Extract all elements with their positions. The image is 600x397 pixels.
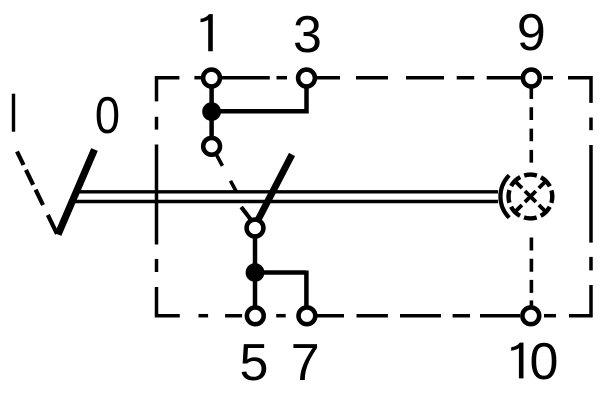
- border bottom short dash near left corner: [199, 314, 209, 318]
- border top dash T1-T3 a: [220, 76, 270, 80]
- lamp L1 dashed cross stroke b: [514, 180, 548, 214]
- border top dash T3-T9 a: [316, 76, 340, 80]
- wire: junction J2 to right: [255, 270, 306, 275]
- wire: terminal 1 down through junction to contact circle: [209, 85, 214, 139]
- dashed wire terminal 9 to lamp: [529, 107, 533, 162]
- terminal 3: [298, 70, 315, 87]
- border right short dash d: [589, 257, 593, 271]
- svg-text:0: 0: [530, 333, 559, 391]
- actuator bar upper line: [74, 190, 498, 193]
- dashed contact path from fixed contact to pivot: [216, 153, 237, 192]
- border bottom dash to T5: [225, 314, 242, 318]
- svg-text:5: 5: [239, 334, 268, 392]
- wire: terminal 3 stub down: [304, 85, 309, 114]
- moving contact lever: [258, 155, 292, 221]
- border bottom short dash T7-T10 d: [453, 314, 470, 318]
- border bottom dash T7-T10 c: [400, 314, 441, 318]
- border right long dash b: [589, 145, 593, 243]
- border bottom dash from T7 a: [317, 314, 344, 318]
- svg-text:3: 3: [293, 6, 322, 64]
- wire: terminal 9 stub down: [529, 86, 533, 99]
- actuator bar lower line: [70, 200, 498, 203]
- fixed contact circle below J1: [203, 138, 220, 155]
- terminal 9: [523, 70, 540, 87]
- border top dash to terminal 1: [194, 76, 202, 80]
- enclosure border: bottom-right corner: [569, 285, 591, 316]
- dashed contact path final segment at pivot: [241, 207, 251, 221]
- border bottom short dash T5-T7: [276, 314, 286, 318]
- label I (position I marker bar): [12, 94, 15, 132]
- label 10 digit 1: [511, 343, 523, 379]
- dashed wire lamp to terminal 10: [530, 238, 534, 293]
- actuator lever position 0 (solid): [58, 150, 95, 235]
- enclosure border: top-right corner: [568, 78, 591, 103]
- border top dash T1-T3 b: [277, 76, 288, 80]
- border bottom dash T7-T10 b: [357, 314, 388, 318]
- junction dot J2: [246, 263, 265, 282]
- wire: junction J1 to terminal 3 (horizontal): [212, 109, 307, 114]
- terminal 10: [522, 307, 539, 324]
- border top short dash T3-T9 d: [457, 76, 475, 80]
- lamp L1 dashed cross stroke a: [514, 180, 548, 214]
- enclosure dash-dot border: top-left corner: [157, 78, 180, 102]
- border top dash after T9: [543, 76, 553, 80]
- svg-text:0: 0: [95, 87, 120, 145]
- wire: down to terminal 7: [304, 271, 309, 307]
- border top dash T3-T9 e: [487, 76, 521, 80]
- label 1: [201, 14, 213, 51]
- lamp actuator arc: [500, 175, 509, 217]
- terminal 1: [203, 70, 220, 87]
- border bottom dash T7-T10 e: [480, 314, 520, 318]
- enclosure border: bottom-left corner: [157, 287, 180, 316]
- border left dash b: [155, 117, 159, 130]
- border top dash T3-T9 c: [406, 76, 444, 80]
- junction dot J1: [202, 102, 221, 121]
- wire: terminal 10 stub up: [530, 300, 534, 307]
- terminal 5: [247, 307, 264, 324]
- actuator lever position I (dashed): [17, 152, 57, 235]
- svg-text:9: 9: [517, 4, 546, 62]
- border right short dash a: [589, 118, 593, 131]
- border left short dash: [155, 259, 159, 272]
- border top dash T3-T9 b: [356, 76, 388, 80]
- svg-text:7: 7: [291, 334, 320, 392]
- pivot contact circle: [247, 220, 264, 237]
- wire: pivot down through junction J2 to terminal 5: [253, 237, 258, 307]
- border bottom dash after T10: [544, 314, 556, 318]
- terminal 7: [299, 307, 316, 324]
- lamp L1 dashed circle: [509, 175, 553, 219]
- border left long dash through actuator bar: [155, 145, 159, 245]
